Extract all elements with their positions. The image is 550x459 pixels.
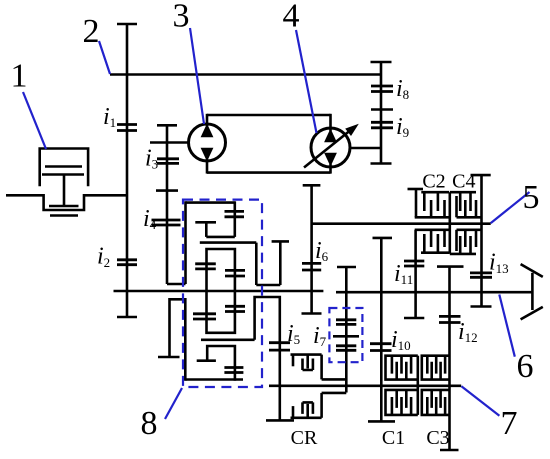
gear i9 bars — [371, 122, 393, 128]
main axis right segment — [336, 291, 532, 294]
clutch C2 upper left T-bar — [408, 188, 424, 191]
svg-text:i4: i4 — [143, 206, 157, 232]
clutch CR lower right side — [320, 393, 323, 418]
clutch C1 upper teeth — [392, 356, 411, 380]
pump 3 circle — [189, 124, 226, 161]
motor triangle up — [324, 129, 337, 143]
planetary sun shaft vertical — [234, 201, 237, 237]
clutch C2 teeth — [424, 192, 444, 217]
clutch C4 lower teeth — [460, 230, 476, 254]
engine connecting rod web — [63, 175, 66, 207]
svg-text:1: 1 — [11, 58, 28, 95]
planetary gear bars upper-right — [225, 270, 245, 276]
i10 shaft T-bottom — [368, 420, 395, 423]
engine rod bottom flange — [49, 205, 79, 208]
svg-text:i8: i8 — [396, 76, 409, 102]
svg-text:C2: C2 — [422, 171, 445, 193]
i8 i9 shaft vertical x381 — [380, 62, 383, 164]
motor triangle down — [324, 153, 337, 167]
clutch C4 lower inner bottom bar — [450, 253, 476, 256]
i13 shaft T-bottom — [471, 305, 492, 308]
shaft x167 cross tick — [156, 189, 178, 192]
engine lower mark — [50, 214, 78, 217]
output coupling bottom tick — [521, 307, 543, 320]
gear i13 bars — [470, 273, 492, 277]
motor variable arrow line — [304, 131, 350, 168]
clutch C3 lower box — [422, 390, 450, 415]
svg-text:5: 5 — [523, 179, 540, 216]
clutch CR upper left stub — [292, 355, 295, 367]
engine 1 cylinder box — [40, 149, 88, 187]
hydraulic loop top line — [207, 114, 331, 117]
i12 shaft vertical x449.5 — [448, 267, 451, 450]
i13 shaft T-top — [471, 174, 491, 177]
clutch CR lower inner U — [303, 402, 313, 414]
planetary top frame — [186, 201, 235, 204]
clutch C3 lower teeth — [427, 390, 445, 415]
svg-text:i5: i5 — [287, 321, 300, 347]
planetary lower carrier bracket — [207, 345, 235, 381]
gear i11 bars — [404, 261, 424, 266]
leader line 7 — [461, 386, 499, 416]
gear i6 bars — [302, 263, 321, 270]
pump bottom stub — [206, 159, 209, 174]
coupling T-bar — [272, 240, 289, 243]
clutch CR upper top bar — [291, 353, 322, 356]
clutch C4 teeth — [460, 192, 476, 217]
shaft x167 T-top — [157, 124, 177, 127]
pump top stub — [206, 114, 209, 126]
svg-text:C3: C3 — [426, 427, 449, 449]
engine piston ring lower — [42, 173, 84, 176]
motor arrow head — [345, 124, 359, 136]
svg-text:8: 8 — [141, 405, 158, 442]
lower carrier T-bar — [197, 359, 216, 362]
clutch CR upper link to i7 shaft — [322, 378, 347, 381]
main input shaft vertical x127 — [126, 24, 129, 317]
i13 shaft vertical x481.5 — [480, 175, 483, 306]
leader line 3 — [190, 28, 204, 124]
clutch C1 C3 center post — [416, 356, 419, 415]
main axis left segment — [114, 290, 324, 293]
planetary bottom frame — [185, 378, 243, 381]
gear i4 bars — [152, 220, 181, 225]
clutch C2 outer bottom bar — [415, 216, 449, 219]
svg-text:6: 6 — [517, 348, 534, 385]
svg-text:C4: C4 — [452, 171, 475, 193]
i6 shaft vertical x311.6 — [310, 185, 313, 313]
i7 shaft cross tick — [333, 335, 359, 338]
engine piston ring upper — [45, 165, 82, 168]
planetary carrier vertical — [205, 222, 208, 237]
planetary ring long line lower — [201, 338, 255, 341]
svg-text:4: 4 — [283, 0, 300, 35]
output coupling 6 vertical bar — [531, 273, 534, 310]
pump triangle up — [201, 124, 214, 138]
coupling bracket below axis — [255, 296, 280, 421]
clutch C4 lower outer top bar — [457, 229, 481, 232]
clutch C3 upper teeth — [427, 356, 445, 380]
svg-text:i7: i7 — [313, 323, 327, 349]
gear i7 dashed box — [329, 308, 362, 362]
i8 shaft cross tick — [371, 108, 393, 111]
svg-text:C1: C1 — [382, 427, 405, 449]
leader line 4 — [296, 30, 317, 133]
clutch C1 lower teeth — [392, 390, 411, 415]
svg-text:i3: i3 — [145, 146, 158, 172]
lower countershaft — [269, 384, 461, 387]
planetary link to i4 shaft — [167, 283, 186, 286]
i5 shaft T-bottom — [266, 419, 294, 422]
clutch C2 lower outer top bar — [415, 229, 449, 232]
svg-text:i9: i9 — [396, 114, 409, 140]
planetary gear bars lower-right — [225, 306, 245, 311]
i10 shaft T-top — [373, 237, 393, 240]
motor 4 circle — [311, 128, 350, 167]
clutch C4 inner top bar — [450, 191, 476, 194]
planetary left frame vertical — [184, 201, 187, 284]
gear i12 bars — [439, 316, 461, 322]
planetary gear bars lower-left — [193, 314, 216, 319]
clutch CR lower left stub — [292, 406, 295, 418]
svg-text:i10: i10 — [391, 327, 411, 353]
gear i7 upper bars — [336, 320, 356, 325]
clutch C3 upper box — [422, 356, 450, 380]
svg-text:i13: i13 — [489, 250, 509, 276]
planetary gear bars bottom — [224, 368, 243, 373]
clutch C2 outer drum left side — [415, 189, 418, 217]
gear i7 lower bars — [336, 346, 356, 351]
svg-text:3: 3 — [173, 0, 190, 35]
shaft x127 T-bottom — [117, 316, 137, 319]
clutch CR lower tooth — [306, 404, 309, 418]
pump triangle down — [201, 148, 214, 162]
planetary gear bars upper-left — [195, 264, 216, 269]
i11 shaft vertical x415.6 — [414, 230, 417, 318]
i7 shaft T-top — [337, 266, 356, 269]
leader line 2 — [99, 41, 110, 74]
i8 shaft T-bottom — [371, 162, 392, 165]
svg-text:2: 2 — [83, 13, 100, 50]
i11 shaft T-bottom — [404, 317, 424, 320]
engine crank U and output line to shaft — [6, 195, 127, 210]
clutch CR upper right side — [320, 355, 323, 380]
leader line 8 — [165, 388, 182, 419]
clutch CR lower link to i7 shaft — [322, 392, 347, 395]
gear i2 bars — [117, 260, 137, 265]
i6 shaft T-bottom — [302, 312, 322, 315]
svg-text:i6: i6 — [315, 238, 329, 264]
gear i3 bars — [157, 159, 179, 164]
svg-text:7: 7 — [501, 405, 518, 442]
i6 shaft T-top — [303, 184, 321, 187]
coupling U above axis — [256, 241, 280, 285]
clutch C2 lower teeth — [424, 230, 444, 253]
output coupling top tick — [521, 264, 543, 277]
i8 shaft T-top — [371, 61, 392, 64]
motor top stub — [329, 114, 332, 131]
svg-text:i2: i2 — [97, 244, 110, 270]
bracket T-bar — [158, 356, 180, 359]
planetary gearbox dashed box 8 — [183, 200, 262, 387]
clutch C1 lower box — [386, 390, 418, 415]
shaft 2 top horizontal — [110, 73, 381, 76]
clutch C1 upper box — [386, 356, 418, 380]
svg-text:i1: i1 — [103, 104, 116, 130]
gear i10 bars — [370, 344, 392, 351]
svg-text:i12: i12 — [458, 319, 478, 345]
motor bottom stub — [329, 164, 332, 174]
planetary carrier horizontal — [195, 221, 216, 224]
planetary sun gear bars — [225, 211, 245, 216]
planetary carrier lower horizontal — [206, 236, 235, 239]
shaft x127 T-top — [117, 23, 137, 26]
clutch C2 inner top bar — [421, 191, 449, 194]
leader line 1 — [23, 92, 46, 149]
clutch CR lower bottom bar — [291, 416, 322, 419]
gear i1 bars — [117, 125, 137, 131]
pump shaft vertical x167 — [166, 125, 169, 284]
i10 shaft vertical x381.3 — [380, 238, 383, 422]
i7 shaft vertical x346.3 — [345, 267, 348, 393]
clutch C2 lower inner bottom bar — [421, 251, 450, 254]
svg-text:CR: CR — [291, 427, 318, 449]
i12 shaft T-top — [437, 265, 464, 268]
motor output link to i8 shaft — [350, 147, 381, 150]
gear i5 bars — [269, 343, 290, 350]
planetary inner rectangle loop — [207, 248, 235, 334]
clutch CR upper tooth — [306, 355, 309, 369]
clutch C4 outer left side — [455, 196, 458, 217]
i12 shaft T-bottom — [440, 449, 459, 452]
clutch C4 lower outer left side — [455, 230, 458, 251]
leader line 6 — [499, 295, 515, 357]
leader line 5 — [491, 192, 530, 223]
gear i8 bars — [371, 86, 393, 92]
planetary left lower bracket — [170, 298, 186, 381]
clutch center post upper — [448, 192, 451, 253]
clutch CR upper inner U — [303, 359, 313, 371]
pump input link — [150, 141, 189, 144]
hydraulic loop bottom line — [207, 171, 331, 174]
planetary ring long line upper — [200, 241, 256, 244]
clutch C4 outer bottom bar — [457, 216, 481, 219]
shaft 5 horizontal — [312, 222, 491, 225]
